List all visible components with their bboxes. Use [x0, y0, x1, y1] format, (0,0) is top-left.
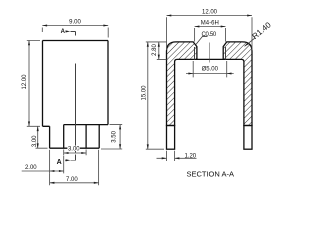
thread major diameter lines [195, 47, 226, 59]
svg-text:7.00: 7.00 [66, 177, 78, 183]
svg-text:9.00: 9.00 [69, 20, 81, 26]
svg-text:M4-6H: M4-6H [201, 21, 219, 27]
dimension 12.00 (section) [167, 10, 253, 50]
svg-text:12.00: 12.00 [202, 10, 218, 16]
svg-text:Ø5.00: Ø5.00 [202, 66, 219, 72]
dimension 3.00 (left vertical) [32, 126, 47, 148]
dimension 15.00 [141, 42, 166, 149]
notch left edge [63, 125, 65, 149]
svg-text:3.50: 3.50 [111, 130, 117, 142]
left foot step [43, 126, 50, 148]
svg-text:3.00: 3.00 [68, 147, 80, 153]
section marker A (top) [61, 29, 76, 35]
left leg lower (unhatched) [167, 126, 175, 150]
svg-text:15.00: 15.00 [141, 85, 147, 101]
svg-text:1.20: 1.20 [184, 153, 196, 159]
inner step line [64, 124, 108, 126]
svg-text:2.80: 2.80 [152, 44, 158, 56]
svg-text:SECTION A-A: SECTION A-A [186, 169, 234, 178]
svg-text:A: A [61, 29, 66, 35]
hatched plate + right leg upper [223, 42, 252, 126]
dimension 12.00 (left) [22, 41, 40, 127]
dimension 3.00 (middle notch) [64, 146, 86, 156]
bottom edge [50, 147, 100, 149]
svg-text:2.00: 2.00 [25, 165, 37, 171]
svg-text:12.00: 12.00 [22, 74, 28, 90]
dimension 9.00 [42, 20, 108, 38]
dimension 2.80 [152, 42, 166, 60]
hatched plate + left leg upper [167, 42, 197, 126]
dimension 2.00 [22, 150, 64, 174]
dimension 1.20 [157, 151, 197, 161]
section marker A (bottom) [57, 155, 76, 166]
radius note R1.40 [244, 20, 273, 47]
svg-text:3.00: 3.00 [32, 135, 38, 147]
chamfer note C0.50 [196, 32, 217, 44]
front view outline [43, 41, 109, 149]
dimension M4-6H [195, 21, 226, 42]
right foot edge [98, 125, 100, 149]
right leg lower (unhatched) [244, 126, 252, 150]
ceiling line under hole [197, 58, 223, 60]
svg-text:C0.50: C0.50 [201, 32, 216, 38]
svg-text:A: A [57, 159, 62, 166]
hole centerline [208, 43, 210, 63]
dimension Ø5.00 [186, 61, 234, 77]
dimension 7.00 [50, 150, 99, 185]
dimension 3.50 (right vertical) [101, 125, 122, 149]
section cut centerline [74, 64, 76, 153]
notch right edge [85, 125, 87, 149]
